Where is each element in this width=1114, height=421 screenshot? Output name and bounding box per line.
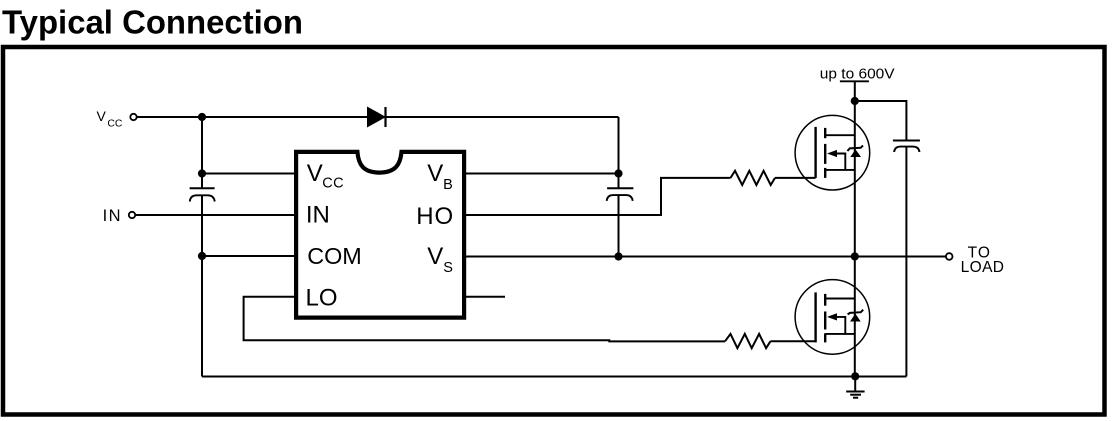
wire VS to load xyxy=(466,256,946,258)
label VCC terminal xyxy=(97,108,123,129)
ground xyxy=(846,376,864,397)
junction VB node xyxy=(614,169,622,177)
resistor R1 high-side gate xyxy=(731,171,776,185)
capacitor C1 vcc decoupling xyxy=(190,188,215,201)
svg-text:LOAD: LOAD xyxy=(961,259,1005,276)
wire R1 to Q1 gate xyxy=(775,177,816,179)
svg-text:V: V xyxy=(427,160,443,187)
svg-text:HO: HO xyxy=(416,203,454,230)
wire C2 top lead xyxy=(618,174,620,189)
wire C2 bottom lead xyxy=(618,195,620,256)
svg-text:V: V xyxy=(307,160,323,187)
svg-text:COM: COM xyxy=(307,243,362,269)
capacitor C2 bootstrap xyxy=(607,188,634,201)
wire VCC rail top xyxy=(137,116,619,118)
wire R2 to Q2 gate xyxy=(770,340,815,342)
svg-text:up to 600V: up to 600V xyxy=(820,66,895,82)
wire bottom rail xyxy=(202,376,906,378)
wire HV rail vertical xyxy=(854,81,856,376)
terminal IN xyxy=(129,212,135,218)
terminal TO LOAD xyxy=(946,253,953,260)
wire VB xyxy=(466,173,619,175)
terminal VCC xyxy=(130,114,136,120)
pin label VB xyxy=(427,160,452,193)
label TO LOAD xyxy=(961,245,1005,277)
wire COM xyxy=(202,255,294,257)
svg-text:CC: CC xyxy=(322,176,344,192)
IC U1 body xyxy=(296,152,464,318)
junction VS rail node xyxy=(851,252,859,260)
junction VS cap node xyxy=(614,252,622,260)
svg-text:B: B xyxy=(443,177,453,193)
svg-text:CC: CC xyxy=(107,118,123,129)
resistor R2 low-side gate xyxy=(725,334,770,348)
wire C1 bottom lead down to bottom rail xyxy=(201,195,203,376)
svg-text:S: S xyxy=(443,260,453,276)
wire LO stub right xyxy=(466,296,505,298)
pin label VS xyxy=(427,243,453,276)
svg-text:V: V xyxy=(97,108,107,124)
junction COM node xyxy=(198,252,206,260)
svg-text:LO: LO xyxy=(306,284,338,311)
wire branch to bus capacitor xyxy=(855,101,907,141)
wire IN xyxy=(135,214,294,216)
transistor Q1 high-side MOSFET xyxy=(795,115,870,190)
svg-text:Typical Connection: Typical Connection xyxy=(2,4,303,41)
junction ground node xyxy=(851,372,859,380)
diode D1 bootstrap xyxy=(368,107,386,127)
transistor Q2 low-side MOSFET xyxy=(795,280,870,355)
junction VCC pin branch xyxy=(198,169,206,177)
svg-text:V: V xyxy=(427,243,443,270)
wire left column vertical xyxy=(201,117,203,188)
capacitor C3 bus xyxy=(893,141,920,153)
svg-text:IN: IN xyxy=(103,207,123,225)
wire to VCC pin xyxy=(202,173,294,175)
svg-text:IN: IN xyxy=(306,201,330,228)
wire HO to gate xyxy=(466,178,731,215)
wire LO route xyxy=(244,297,725,342)
bus bar up to 600V xyxy=(840,80,869,82)
wire C3 bottom lead xyxy=(905,147,907,377)
wire diode cathode down to VB xyxy=(618,117,620,174)
junction VCC node xyxy=(198,113,206,121)
junction HV top node xyxy=(851,97,859,105)
pin label VCC xyxy=(307,160,344,192)
